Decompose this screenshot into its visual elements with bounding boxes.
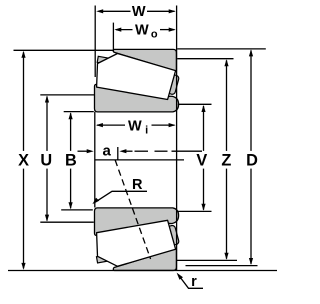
Wo left extension tick [112,23,114,52]
tapered roller, bottom half [97,220,176,266]
dimension a [78,142,133,160]
back face extension line (right vertical) [176,6,178,271]
cage tab small end, top half [97,56,114,65]
tapered roller, top half [97,54,176,100]
D top extension line [177,48,266,50]
svg-text:B: B [65,152,77,170]
dimension D vertical line [246,49,258,265]
dimension Wi [96,118,176,136]
V bottom extension line [177,210,212,212]
svg-text:V: V [196,152,207,170]
svg-text:D: D [246,152,258,170]
front face extension line middle (Wi / a datum) [94,112,96,208]
U bottom extension line [40,221,94,223]
svg-text:a: a [103,142,112,159]
dimension W [96,4,176,20]
dimension V vertical line [196,105,207,211]
X top extension line [14,49,114,51]
dimension Wo [114,23,175,41]
dimension B vertical line [65,112,77,209]
label R with leader [92,177,147,204]
dimension Z vertical line [221,59,231,259]
roller axis dashed line R [115,160,151,259]
label r with leader [177,273,203,290]
cone (inner ring) bottom half [95,208,179,235]
mid horizontal line [95,159,184,161]
svg-text:W: W [132,4,146,20]
bottom long extension line [8,270,277,272]
svg-text:W: W [128,118,142,134]
svg-text:i: i [145,124,148,136]
U top extension line [40,94,94,96]
svg-text:r: r [191,274,197,290]
cone (inner ring) top half [95,84,179,111]
cup (outer ring) bottom half [113,249,176,271]
B bottom extension line [61,209,93,211]
centerline dashes right of a [135,150,203,152]
Z top extension line [177,58,233,60]
D bottom extension line [186,265,258,267]
svg-text:o: o [151,29,158,41]
Z bottom extension line [177,259,237,261]
cage bar big end, bottom half [168,225,180,246]
cage tab small end, bottom half [96,254,113,263]
front face extension line upper (W tick) [94,6,96,78]
cup (outer ring) top half [113,49,176,71]
svg-text:X: X [18,152,29,170]
svg-text:W: W [135,23,149,39]
svg-text:U: U [40,152,52,170]
svg-text:R: R [132,177,143,193]
dimension X vertical line [18,51,29,270]
B top extension line [64,111,94,113]
svg-text:Z: Z [221,152,231,170]
V top extension line [178,103,212,105]
dimension U vertical line [40,96,52,222]
cage bar big end, top half [168,74,180,95]
